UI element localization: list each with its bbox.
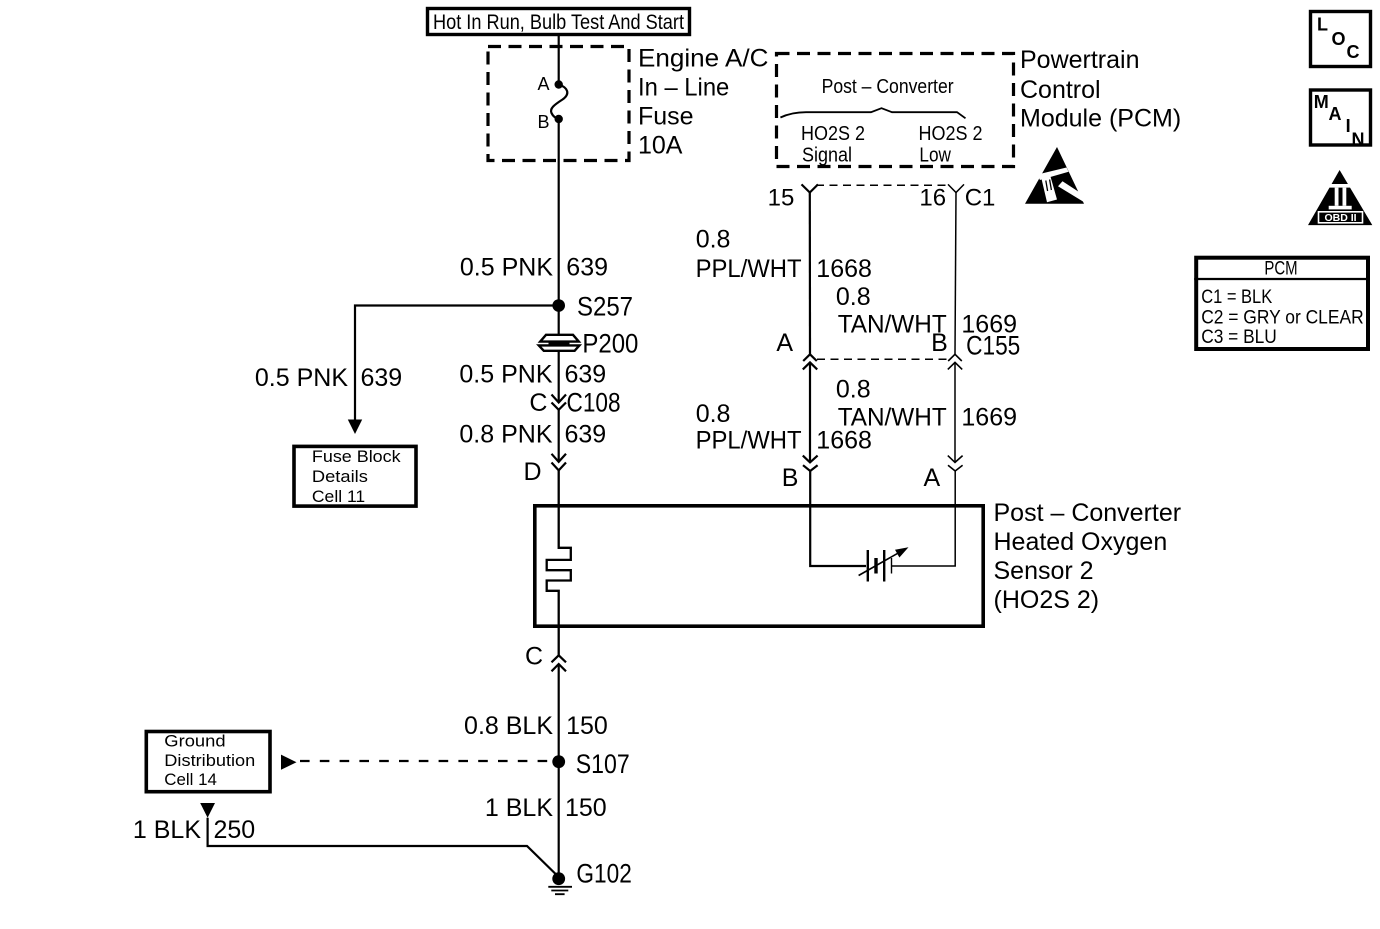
title box Hot In Run	[428, 9, 690, 35]
wire pin16 to C155	[955, 193, 956, 355]
svg-text:Distribution: Distribution	[164, 751, 255, 770]
svg-text:0.5 PNK: 0.5 PNK	[255, 364, 348, 392]
svg-text:A: A	[1329, 104, 1342, 124]
wire label 0.8 TAN/WHT 1669 (upper)	[836, 283, 1017, 339]
svg-text:P200: P200	[582, 329, 638, 359]
arrow below ground distribution box	[200, 803, 215, 818]
svg-text:L: L	[1317, 14, 1328, 34]
svg-text:150: 150	[566, 712, 608, 740]
svg-text:(HO2S 2): (HO2S 2)	[994, 586, 1100, 614]
OBD II symbol	[1308, 170, 1372, 225]
svg-text:A: A	[537, 74, 549, 94]
wire label 0.8 BLK 150	[464, 712, 608, 740]
svg-text:C3 = BLU: C3 = BLU	[1201, 326, 1277, 348]
branch wire to fuse block details	[355, 306, 559, 420]
svg-text:C108: C108	[567, 388, 621, 418]
connector C155 B side	[931, 329, 1020, 369]
svg-text:S257: S257	[577, 292, 633, 322]
svg-text:16: 16	[919, 185, 946, 212]
svg-text:Details: Details	[312, 467, 368, 486]
svg-text:150: 150	[565, 794, 607, 822]
svg-text:Module (PCM): Module (PCM)	[1020, 105, 1181, 133]
svg-text:Sensor 2: Sensor 2	[994, 557, 1094, 585]
svg-text:Ground: Ground	[164, 732, 225, 751]
PCM text right	[1020, 46, 1181, 132]
svg-text:0.5 PNK: 0.5 PNK	[460, 254, 553, 282]
svg-text:639: 639	[565, 360, 607, 388]
svg-text:In – Line: In – Line	[638, 74, 729, 102]
PCM internal text	[801, 76, 983, 166]
svg-text:C: C	[1347, 42, 1360, 62]
fuse F (Engine A/C In-Line Fuse)	[551, 80, 567, 123]
wire label 0.5 PNK 639 (below P200)	[459, 360, 606, 388]
svg-text:0.8 BLK: 0.8 BLK	[464, 712, 553, 740]
splice S107	[552, 749, 629, 779]
arrow into fuse block details	[348, 420, 362, 435]
branch wire label 0.5 PNK 639	[255, 364, 402, 392]
svg-text:Engine A/C: Engine A/C	[638, 45, 768, 73]
svg-text:Hot In Run, Bulb Test And Star: Hot In Run, Bulb Test And Start	[433, 11, 684, 34]
svg-text:Cell 14: Cell 14	[164, 770, 217, 789]
svg-text:OBD II: OBD II	[1324, 212, 1356, 224]
svg-text:Low: Low	[919, 144, 951, 166]
svg-text:C: C	[525, 643, 543, 671]
svg-text:C155: C155	[966, 331, 1020, 361]
wire label 1 BLK 250	[133, 816, 255, 844]
dashed link C155	[817, 358, 950, 360]
svg-text:G102: G102	[576, 859, 631, 889]
connector C155 A side	[776, 329, 817, 369]
wire pin15 to C155	[809, 193, 811, 355]
svg-text:Post – Converter: Post – Converter	[994, 499, 1182, 527]
svg-text:Post – Converter: Post – Converter	[822, 76, 954, 98]
svg-text:A: A	[924, 464, 941, 492]
LOC box	[1311, 12, 1371, 67]
ESD symbol	[1025, 147, 1086, 204]
svg-text:PCM: PCM	[1264, 258, 1297, 280]
wire label 0.8 PPL/WHT 1668 (lower)	[696, 400, 872, 454]
svg-text:1 BLK: 1 BLK	[485, 794, 553, 822]
grommet P200	[539, 329, 639, 359]
svg-text:0.8: 0.8	[696, 226, 731, 254]
svg-text:0.8 PNK: 0.8 PNK	[459, 421, 552, 449]
svg-text:1 BLK: 1 BLK	[133, 816, 201, 844]
fuse box dashed	[488, 47, 629, 161]
svg-text:Fuse: Fuse	[638, 103, 694, 131]
svg-text:C1 = BLK: C1 = BLK	[1201, 286, 1272, 308]
svg-text:PPL/WHT: PPL/WHT	[696, 255, 802, 283]
wire label 0.5 PNK 639 (top)	[460, 254, 608, 282]
svg-text:B: B	[782, 464, 799, 492]
heater element and wire through box	[547, 470, 571, 655]
PCM dashed box	[777, 54, 1014, 167]
wire 1 BLK 250 to G102	[208, 818, 559, 877]
svg-text:1668: 1668	[816, 426, 872, 454]
svg-text:10A: 10A	[638, 132, 683, 160]
pin 15 female connector	[768, 184, 818, 211]
HO2S text	[994, 499, 1182, 614]
svg-text:B: B	[537, 112, 549, 132]
arrow at ground distribution box	[281, 755, 297, 770]
svg-text:A: A	[776, 329, 793, 357]
svg-text:Powertrain: Powertrain	[1020, 46, 1140, 74]
svg-text:639: 639	[566, 254, 608, 282]
dashed reference line to ground distribution	[300, 760, 552, 762]
wire C155-B to connector A	[954, 362, 956, 462]
connector C108	[529, 388, 620, 418]
wire label 0.8 PPL/WHT 1668 (upper)	[696, 226, 872, 283]
wire C to G102	[558, 664, 560, 873]
svg-text:1669: 1669	[961, 403, 1017, 431]
svg-text:C: C	[529, 389, 547, 417]
dashed link C1	[816, 184, 950, 186]
svg-text:1668: 1668	[816, 255, 872, 283]
svg-text:0.5 PNK: 0.5 PNK	[459, 360, 552, 388]
svg-text:0.8: 0.8	[696, 400, 731, 428]
svg-text:639: 639	[361, 364, 403, 392]
connector B (into HO2S)	[782, 456, 818, 492]
connector A (into HO2S)	[924, 456, 963, 492]
connector D (into HO2S)	[523, 454, 566, 486]
ground G102	[548, 859, 632, 895]
wire label 0.8 TAN/WHT 1669 (lower)	[836, 376, 1017, 432]
svg-text:HO2S 2: HO2S 2	[801, 123, 865, 145]
HO2S 2 box	[535, 506, 983, 626]
svg-text:S107: S107	[576, 749, 630, 779]
svg-text:0.8: 0.8	[836, 376, 871, 404]
fuse block details box	[294, 446, 416, 506]
ground distribution box	[146, 732, 270, 792]
svg-text:639: 639	[565, 421, 607, 449]
svg-text:Heated Oxygen: Heated Oxygen	[994, 528, 1168, 556]
PCM connector table	[1194, 258, 1370, 350]
svg-text:15: 15	[768, 185, 795, 212]
fuse name text	[638, 45, 768, 160]
wire label 0.8 PNK 639	[459, 421, 606, 449]
svg-text:I: I	[1346, 116, 1351, 136]
svg-text:B: B	[931, 329, 948, 357]
wire S257 to C108 through P200	[558, 306, 560, 462]
svg-text:C1: C1	[965, 185, 996, 212]
svg-text:Fuse Block: Fuse Block	[312, 447, 401, 466]
connector C (below HO2S)	[525, 643, 566, 672]
svg-text:O: O	[1332, 29, 1346, 49]
MAIN box	[1311, 90, 1371, 149]
svg-text:250: 250	[214, 816, 256, 844]
brace under Post-Converter	[780, 108, 965, 118]
svg-text:Signal: Signal	[802, 144, 852, 166]
svg-text:Control: Control	[1020, 76, 1101, 104]
svg-text:PPL/WHT: PPL/WHT	[696, 426, 802, 454]
sensor element (variable cell)	[810, 471, 955, 582]
svg-text:0.8: 0.8	[836, 283, 871, 311]
wire from title box to fuse	[558, 35, 560, 84]
svg-text:HO2S 2: HO2S 2	[919, 123, 983, 145]
svg-text:N: N	[1352, 129, 1365, 149]
svg-text:M: M	[1314, 92, 1329, 112]
wire C155-A to connector B	[809, 362, 811, 462]
wire label 1 BLK 150	[485, 794, 607, 822]
pin 16 female connector	[919, 184, 995, 211]
wire fuse B to S257	[558, 119, 560, 306]
svg-text:D: D	[523, 458, 541, 486]
splice S257	[552, 292, 633, 322]
svg-text:Cell 11: Cell 11	[312, 487, 365, 506]
